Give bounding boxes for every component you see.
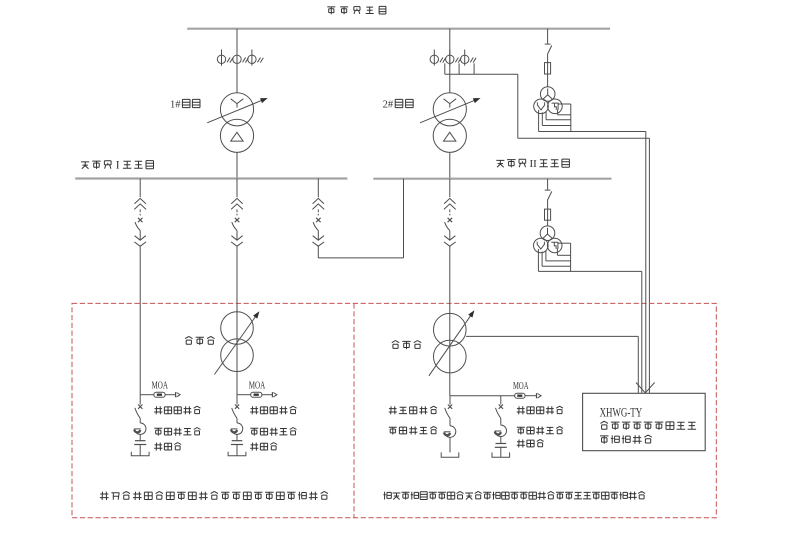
svg-text:1#: 1# [170, 99, 181, 111]
svg-text:XHWG-TY: XHWG-TY [600, 406, 643, 420]
svg-text:MOA: MOA [152, 380, 169, 391]
svg-text:2#: 2# [383, 99, 394, 111]
svg-text:I: I [116, 159, 120, 171]
svg-text:II: II [530, 158, 538, 170]
svg-text:MOA: MOA [249, 380, 266, 391]
svg-text:MOA: MOA [513, 381, 529, 392]
